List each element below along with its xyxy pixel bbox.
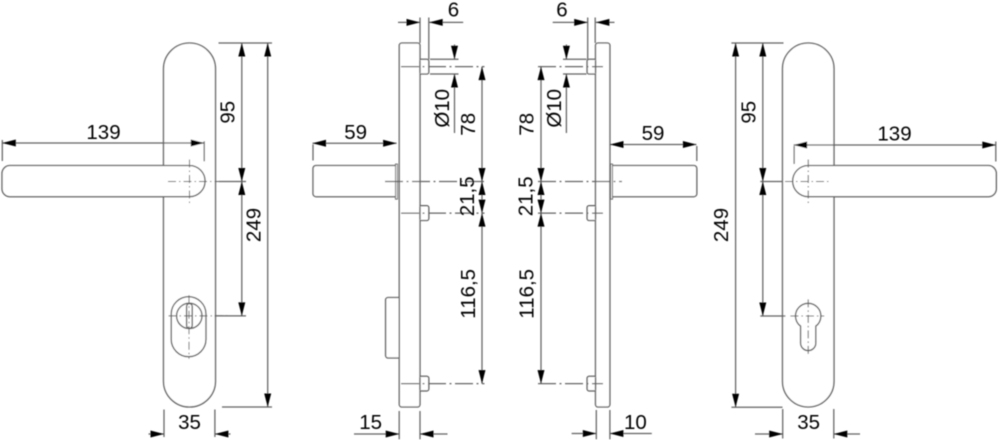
svg-text:21,5: 21,5 (515, 176, 538, 216)
svg-text:15: 15 (359, 411, 382, 434)
svg-text:139: 139 (877, 123, 911, 146)
svg-text:35: 35 (178, 411, 201, 434)
svg-text:Ø10: Ø10 (543, 89, 566, 128)
svg-text:139: 139 (86, 121, 120, 144)
svg-text:10: 10 (624, 411, 647, 434)
svg-text:6: 6 (448, 0, 459, 22)
svg-text:Ø10: Ø10 (431, 89, 454, 128)
svg-text:95: 95 (738, 101, 761, 124)
svg-text:21,5: 21,5 (456, 176, 479, 216)
svg-text:116,5: 116,5 (516, 269, 539, 319)
svg-text:249: 249 (710, 208, 733, 242)
svg-text:59: 59 (344, 121, 367, 144)
svg-text:59: 59 (642, 122, 665, 145)
svg-text:78: 78 (516, 113, 539, 136)
svg-text:6: 6 (556, 0, 567, 22)
svg-text:78: 78 (457, 113, 480, 136)
svg-text:35: 35 (797, 411, 820, 434)
svg-text:95: 95 (217, 101, 240, 124)
svg-text:116,5: 116,5 (457, 269, 480, 319)
svg-text:249: 249 (243, 208, 266, 242)
